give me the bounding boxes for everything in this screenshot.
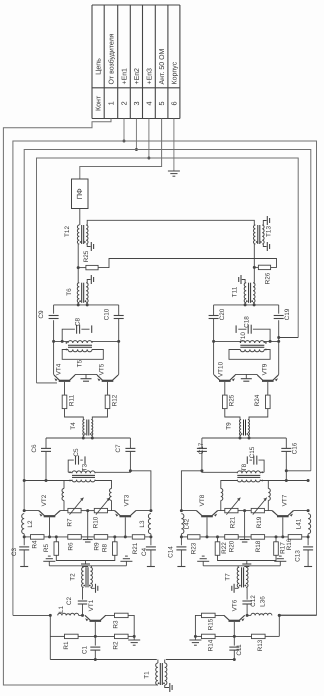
transistor VT1 [85, 615, 106, 621]
svg-text:L3: L3 [139, 520, 146, 528]
resistor R25 [78, 250, 98, 270]
ground Т11 top [239, 275, 241, 284]
capacitor C7 [115, 444, 135, 453]
resistor R14 [195, 634, 234, 651]
svg-text:R3: R3 [112, 620, 119, 629]
transformer Т8 [237, 463, 263, 482]
wire R15 right column [194, 615, 202, 640]
wire bead left to base row [267, 501, 269, 511]
label VT10 [217, 361, 224, 377]
resistor R8 [102, 535, 118, 555]
table pin 1 name От возбудителя [108, 33, 116, 84]
svg-text:R4: R4 [31, 540, 38, 549]
transistor VT2 [39, 511, 60, 517]
table pin 2 number [120, 101, 129, 105]
svg-text:C19: C19 [284, 308, 291, 320]
transistor VT7 [272, 511, 293, 517]
wire emitters tie [230, 374, 262, 379]
transistor VT10 [214, 375, 235, 381]
svg-text:Т13: Т13 [266, 226, 273, 237]
ground bias rail [81, 561, 90, 567]
ground Т7 rail right [197, 556, 209, 566]
label VT8 [199, 494, 206, 506]
svg-text:VT5: VT5 [99, 363, 106, 375]
wire C16 column [285, 438, 287, 481]
wire VT7 emitter to R19 [265, 511, 278, 516]
svg-text:R6: R6 [67, 542, 74, 551]
wire Т1 top left [157, 660, 159, 664]
svg-text:R25: R25 [83, 250, 90, 262]
svg-text:R26: R26 [265, 272, 272, 284]
capacitor C19 [274, 308, 292, 320]
wire L1 to base [79, 614, 83, 616]
wire C11 to rail [233, 650, 236, 661]
ground Т2 secondary [96, 584, 98, 593]
svg-text:1: 1 [107, 101, 116, 105]
svg-text:VT3: VT3 [124, 494, 131, 506]
inductor L2 [22, 514, 34, 534]
wire Т8 top right lead [202, 471, 237, 473]
connector table XS1 frame [92, 5, 180, 119]
svg-text:От возбудителя: От возбудителя [108, 33, 116, 84]
svg-text:3: 3 [132, 101, 141, 105]
wire Т5 top leads [52, 340, 120, 343]
wire L36 to base [247, 614, 251, 616]
svg-text:R21: R21 [230, 516, 237, 528]
svg-text:C3: C3 [11, 547, 18, 556]
label VT7 [281, 494, 288, 506]
capacitor C15 [249, 446, 257, 464]
wire VT5 base [107, 382, 109, 395]
transformer Т1 [144, 663, 167, 685]
resistor R26 [254, 265, 271, 284]
capacitor C13 [295, 547, 314, 562]
capacitor C1 [81, 645, 100, 654]
table pin 6 name Корпус [171, 61, 178, 84]
resistor R17 [274, 535, 287, 555]
ground R3 column [128, 640, 140, 645]
wire R19 to center [238, 509, 251, 512]
wire input rail [50, 659, 157, 661]
wire C15 branch [250, 460, 265, 472]
resistor R9 [88, 535, 126, 551]
wire R12 to Т4 [92, 409, 107, 420]
wire Т1 bottom left to exciter bus [157, 684, 158, 686]
table pin 5 number [157, 101, 166, 105]
wire VT7 collector to L41 [288, 509, 309, 515]
termination bar C3 [20, 566, 28, 568]
svg-text:+Еп2: +Еп2 [134, 68, 141, 85]
ground T13 top [267, 216, 269, 225]
svg-text:C13: C13 [295, 550, 302, 562]
svg-text:R25: R25 [229, 394, 236, 406]
wire Т10 bottom loop [229, 350, 270, 360]
transformer Т9 [225, 420, 249, 436]
resistor R22 [215, 535, 228, 555]
wire Т2 primary rail [49, 566, 126, 568]
wire VT6 emitter [239, 615, 244, 620]
bandpass filter ПФ box [72, 179, 89, 209]
wire Т8 bottom row [221, 479, 310, 489]
transistor VT5 [97, 375, 118, 381]
ground bias rail [242, 561, 251, 567]
table pin 6 number [169, 101, 178, 105]
svg-text:R16: R16 [286, 538, 293, 550]
table pin 3 name +Еп2 [134, 68, 141, 85]
resistor R18 [245, 535, 283, 553]
svg-text:R12: R12 [112, 394, 119, 406]
svg-text:VT8: VT8 [199, 494, 206, 506]
capacitor C18 [243, 316, 251, 334]
ground T13 secondary [267, 242, 269, 251]
svg-text:C10: C10 [104, 308, 111, 320]
svg-text:5: 5 [157, 101, 166, 105]
wire VT6 collector to R15 [215, 615, 229, 620]
svg-text:Т7: Т7 [224, 573, 231, 581]
wire VT2 collector to L2 [23, 509, 44, 515]
wire L3 bottom node [149, 534, 152, 546]
capacitor C12 [242, 595, 256, 607]
wire +Еп3 right to C19 column [277, 336, 298, 339]
svg-text:VT7: VT7 [281, 494, 288, 506]
svg-text:R23: R23 [190, 542, 197, 554]
wire C13 to bar [307, 550, 309, 567]
wire pin4 +Еп3 bus [37, 119, 299, 383]
wire Т7 to C12 [246, 587, 248, 599]
wire Т7 primary rail [203, 566, 280, 568]
transistor VT8 [197, 511, 218, 517]
wire R25 to R26 link [98, 259, 276, 268]
wire R1 left column [49, 615, 51, 659]
svg-text:L36: L36 [260, 596, 267, 607]
wire C17 column [181, 438, 203, 511]
svg-text:ПФ: ПФ [75, 188, 84, 199]
inductor L42 [181, 514, 190, 534]
svg-text:VT10: VT10 [217, 361, 224, 377]
resistor R21 trimmer [225, 498, 241, 529]
wire left column with C19 [278, 305, 280, 375]
transformer Т7 [224, 567, 248, 587]
transistor VT9 [257, 375, 278, 381]
svg-text:VT6: VT6 [232, 599, 239, 611]
label VT1 [88, 599, 95, 611]
svg-text:Т2: Т2 [70, 573, 77, 581]
wire VT1 base column [94, 622, 97, 646]
wire Т10 top leads [212, 340, 280, 343]
ferrite bead right [110, 489, 112, 501]
capacitor C20 [209, 308, 226, 320]
wire R5 R8 bottom rail [56, 555, 115, 560]
svg-text:Т11: Т11 [231, 286, 238, 297]
resistor R19 trimmer [251, 498, 267, 529]
wire VT7 base [281, 517, 284, 538]
wire Т6 secondary to collector rail [54, 300, 119, 306]
wire pin3 +Еп2 bus [24, 119, 311, 511]
wire bead right to base row [111, 501, 113, 511]
wire Т3 bottom left drop [64, 481, 72, 489]
capacitor C11 [229, 644, 243, 656]
svg-text:R14: R14 [207, 639, 214, 651]
wire bead left to base row [63, 501, 65, 511]
wire input rail right [166, 659, 235, 661]
wire T12 primary down to R25 node and T6 [77, 244, 80, 283]
wire L41 bottom node [307, 534, 310, 546]
wire L2 bottom node [23, 534, 26, 546]
svg-text:R19: R19 [256, 516, 263, 528]
svg-text:L41: L41 [296, 518, 303, 529]
resistor R21 [125, 535, 151, 555]
ground R15 column [189, 640, 201, 645]
svg-text:Т6: Т6 [66, 288, 73, 296]
svg-text:R15: R15 [207, 618, 214, 630]
transistor VT4 [54, 375, 75, 381]
wire VT9 collector [273, 374, 278, 379]
capacitor C14 [167, 546, 186, 558]
table header Конт [95, 95, 103, 111]
wire VT6 base column [233, 622, 236, 646]
label VT9 [261, 363, 268, 375]
table pin 5 name Ант. 50 ОМ [159, 48, 166, 84]
svg-text:Т9: Т9 [225, 422, 232, 430]
wire left column with C9 [53, 305, 55, 375]
capacitor C5 [73, 448, 80, 465]
label VT5 [99, 363, 106, 375]
wire Т3 top left lead [68, 471, 72, 473]
svg-text:VT2: VT2 [41, 494, 48, 506]
svg-text:R10: R10 [93, 516, 100, 528]
wire right column with C10 [118, 305, 120, 375]
wire pin6 to ground [173, 119, 175, 172]
svg-text:VT9: VT9 [261, 363, 268, 375]
label VT6 [232, 599, 239, 611]
resistor R7 trimmer [66, 498, 83, 527]
termination bar C14 [177, 566, 185, 568]
svg-text:VT1: VT1 [88, 599, 95, 611]
resistor R10 trimmer [93, 498, 110, 529]
svg-text:R1: R1 [63, 641, 70, 650]
wire T13 bottom right to ground [263, 244, 266, 247]
wire R10 to VT3 [108, 511, 120, 516]
wire pin5 antenna to filter [80, 119, 162, 180]
wire Т8 bottom left drop [260, 481, 268, 489]
svg-text:C18: C18 [243, 316, 250, 328]
wire R17 R22 bottom rail [218, 555, 277, 560]
capacitor C16 [281, 442, 298, 454]
wire C5 branch [68, 460, 83, 472]
wire VT1 collector to R3 [100, 615, 114, 620]
wire R21 to VT8 [213, 511, 225, 516]
svg-text:R13: R13 [257, 639, 264, 651]
svg-text:C9: C9 [38, 310, 45, 319]
ground Т7 rail left [274, 556, 286, 566]
capacitor C4 [141, 547, 156, 556]
capacitor C17 [197, 442, 207, 454]
wire VT9 base [267, 382, 269, 395]
wire VT5 collector [113, 374, 119, 379]
ground Т7 secondary [232, 584, 234, 593]
termination bar C4 [147, 566, 155, 568]
ferrite bead left [268, 489, 270, 501]
svg-text:R9: R9 [94, 542, 101, 551]
ground pin6 [168, 171, 180, 176]
resistor R24 [254, 394, 270, 408]
wire C6 column [45, 438, 47, 481]
svg-text:C4: C4 [141, 547, 148, 556]
resistor R2 [95, 634, 134, 649]
wire Т8 top left lead [260, 471, 264, 473]
wire Т7 bottom right to ground [235, 586, 238, 589]
wire VT8 base [206, 517, 209, 538]
table pin 2 name +Еп1 [122, 68, 129, 85]
wire pin2 +Еп1 bus [13, 119, 317, 616]
ferrite bead left [62, 489, 64, 501]
resistor R1 [50, 634, 95, 649]
wire C1 to rail [94, 650, 97, 661]
svg-text:C2: C2 [66, 596, 73, 605]
wire Т2 to C2 [82, 587, 84, 599]
resistor R16 [283, 535, 308, 551]
wire L42 bottom node [180, 534, 183, 546]
svg-text:Т8: Т8 [241, 463, 248, 471]
table header Цепь [95, 58, 103, 75]
wire center tap ground [83, 511, 93, 542]
ground Т2 rail right [120, 556, 132, 566]
svg-text:L2: L2 [27, 520, 34, 528]
wire pin1 exciter bus [3, 119, 156, 686]
svg-text:C11: C11 [236, 644, 243, 656]
table pin 4 name +Еп3 [146, 68, 153, 85]
wire VT3 base [124, 517, 127, 538]
svg-text:C15: C15 [249, 446, 256, 458]
wire Т1 bottom right to ground [165, 685, 169, 688]
svg-text:C14: C14 [167, 546, 174, 558]
svg-text:Т1: Т1 [144, 671, 151, 679]
wire C3 to bar [23, 550, 25, 567]
wire Т11 top right to ground [242, 280, 245, 283]
wire Т3 bottom row [23, 479, 112, 489]
wire Т4 secondary to rail [46, 436, 130, 440]
capacitor C3 [11, 547, 29, 556]
svg-text:R7: R7 [66, 518, 73, 527]
resistor R3 [112, 613, 128, 628]
termination bar C18 [235, 325, 237, 333]
wire Т2 bottom right to ground [92, 586, 95, 589]
wire C14 to bar [180, 550, 182, 567]
wire Т1 top right [164, 660, 166, 664]
svg-text:VT4: VT4 [56, 363, 63, 375]
resistor R12 [105, 394, 118, 408]
inductor L1 [58, 606, 79, 616]
transformer Т6 [66, 283, 88, 303]
svg-text:Т5: Т5 [77, 359, 84, 367]
svg-text:R18: R18 [255, 540, 262, 552]
termination bar C15 [246, 456, 248, 464]
svg-text:Т12: Т12 [64, 226, 71, 237]
wire T13 top right to ground [263, 221, 266, 226]
wire R3 right column [128, 615, 136, 640]
wire R13 right column [278, 615, 280, 636]
wire +Еп1 right to driver node [278, 614, 317, 617]
svg-text:R8: R8 [102, 543, 109, 552]
ground Т6 top [91, 275, 93, 284]
wire VT10 collector [214, 374, 220, 379]
svg-text:C16: C16 [292, 442, 299, 454]
transformer T12 [64, 225, 88, 244]
wire R11 to Т4 [65, 409, 84, 420]
termination bar C5 [84, 456, 86, 464]
svg-text:R5: R5 [43, 543, 50, 552]
wire R24 to Т9 [249, 409, 268, 420]
label VT2 [41, 494, 48, 506]
svg-text:Ант. 50 ОМ: Ант. 50 ОМ [159, 48, 166, 84]
svg-text:C12: C12 [250, 595, 257, 607]
svg-text:R22: R22 [221, 542, 228, 554]
svg-text:Конт: Конт [95, 95, 103, 111]
wire Т3 top right lead [95, 471, 130, 473]
transformer Т4 [70, 420, 93, 436]
transformer Т10 [240, 332, 267, 352]
wire +Еп1 feed to L1 [13, 614, 52, 617]
wire VT2 base [48, 517, 51, 538]
wire R7 to center [81, 509, 94, 512]
termination bar C13 [304, 566, 312, 568]
resistor R11 [62, 394, 75, 408]
capacitor C8 [75, 317, 82, 333]
svg-text:Цепь: Цепь [95, 58, 103, 75]
wire VT3 collector to L3 [131, 509, 153, 515]
svg-text:2: 2 [120, 101, 129, 105]
svg-text:R20: R20 [229, 540, 236, 552]
svg-text:+Еп1: +Еп1 [122, 68, 129, 85]
svg-text:C17: C17 [198, 442, 205, 454]
ferrite bead right [221, 489, 223, 501]
wire VT1 emitter [85, 615, 90, 620]
wire bead right to base row [220, 501, 222, 511]
capacitor C10 [104, 308, 124, 320]
transformer Т3 [69, 463, 95, 482]
wire center tap ground [240, 511, 250, 542]
svg-text:R2: R2 [112, 641, 119, 650]
wire VT4 base [64, 382, 66, 395]
svg-text:Т4: Т4 [70, 422, 77, 430]
wire +Еп2 right to C16 column [285, 469, 311, 472]
wire C2 to base node [81, 604, 84, 617]
svg-text:R17: R17 [279, 542, 286, 554]
svg-text:L42: L42 [183, 518, 190, 529]
label VT3 [124, 494, 131, 506]
wire C4 to bar [150, 550, 152, 567]
ground Т1 [170, 683, 172, 692]
svg-text:C7: C7 [115, 444, 122, 453]
wire ПФ to T12 [79, 209, 81, 226]
svg-text:C5: C5 [73, 448, 80, 457]
wire Т11 secondary to collector rail [214, 300, 279, 306]
wire T13 primary down to R26 node and T11 [253, 244, 256, 283]
ground T12 secondary [91, 242, 93, 251]
transformer Т5 [66, 341, 93, 368]
wire Т9 secondary to rail [202, 436, 286, 440]
ground emitters [81, 374, 92, 381]
capacitor C9 [38, 310, 59, 319]
wire Т5 bottom loop [62, 350, 103, 360]
inductor L36 [251, 596, 272, 616]
capacitor C6 [31, 444, 51, 453]
transformer Т2 [70, 567, 93, 587]
svg-text:C1: C1 [81, 645, 88, 654]
transistor VT6 [224, 615, 245, 621]
wire R25 to Т9 [225, 409, 240, 420]
svg-text:Т3: Т3 [81, 463, 88, 471]
